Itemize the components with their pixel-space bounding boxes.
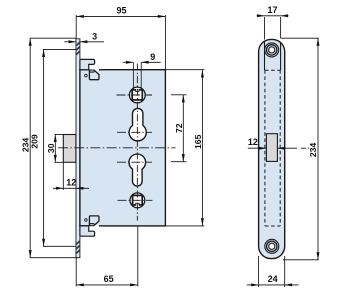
faceplate hatch top xyxy=(76,42,79,54)
svg-text:17: 17 xyxy=(267,5,277,15)
dim 234 right xyxy=(281,38,319,260)
follower hole top xyxy=(129,87,145,103)
dim 3 xyxy=(64,41,104,43)
inner edge solid top right xyxy=(280,43,282,71)
centerline vertical xyxy=(136,64,138,221)
svg-text:24: 24 xyxy=(268,274,278,284)
latch head top xyxy=(89,70,99,80)
svg-text:30: 30 xyxy=(46,143,56,153)
svg-text:95: 95 xyxy=(116,5,126,15)
lock case xyxy=(80,70,165,226)
hidden case top xyxy=(265,69,280,71)
dim 30 xyxy=(55,135,64,163)
dim 9 ext lines xyxy=(123,62,161,88)
svg-text:65: 65 xyxy=(104,274,114,284)
follower hole bottom xyxy=(130,193,145,208)
hidden case bottom xyxy=(265,225,280,227)
pin circle top xyxy=(85,74,88,77)
centerline hole4 xyxy=(118,199,153,201)
notch white bottom xyxy=(89,226,100,232)
svg-text:12: 12 xyxy=(66,178,76,188)
svg-text:165: 165 xyxy=(193,134,203,149)
strike box side view xyxy=(63,135,76,163)
centerline hole3 xyxy=(117,161,152,163)
dim 65 xyxy=(76,227,138,287)
centerline hole1 xyxy=(117,94,153,96)
latch tab top xyxy=(90,70,95,72)
keyhole lower xyxy=(129,154,146,186)
dim 17 xyxy=(257,16,289,40)
latch bar top xyxy=(80,59,95,69)
keyhole upper xyxy=(129,108,146,140)
latch bar bottom xyxy=(80,226,95,236)
dim 95 xyxy=(76,15,165,70)
screw hole bottom xyxy=(265,239,279,253)
latch head bottom xyxy=(89,216,99,226)
notch white top xyxy=(89,63,100,69)
cutout centerline dash xyxy=(301,147,311,149)
centerline hole2 xyxy=(117,131,152,133)
dim 165 xyxy=(166,70,204,226)
dim 12 right xyxy=(248,147,297,149)
dim 234 left xyxy=(30,38,78,258)
svg-text:3: 3 xyxy=(92,32,97,42)
latch tab bottom xyxy=(90,223,95,225)
svg-text:12: 12 xyxy=(248,137,258,147)
faceplate side view xyxy=(76,39,80,258)
hidden case edge left xyxy=(264,70,266,226)
dim 209 xyxy=(43,49,76,246)
inner edge solid top left xyxy=(264,41,266,70)
screw hole top xyxy=(265,43,279,57)
svg-text:209: 209 xyxy=(29,134,39,149)
centerline main xyxy=(58,147,176,149)
dim 24 xyxy=(247,256,299,287)
hidden case edge right xyxy=(279,70,281,226)
dim 72 xyxy=(171,95,187,162)
faceplate hatch bottom xyxy=(76,241,79,253)
dim 12 left xyxy=(53,163,89,191)
svg-text:72: 72 xyxy=(174,123,184,133)
svg-text:9: 9 xyxy=(150,52,155,62)
front plate xyxy=(259,39,285,258)
pin circle bottom xyxy=(85,219,88,222)
svg-text:234: 234 xyxy=(308,143,318,158)
latch cutout front xyxy=(266,134,277,162)
